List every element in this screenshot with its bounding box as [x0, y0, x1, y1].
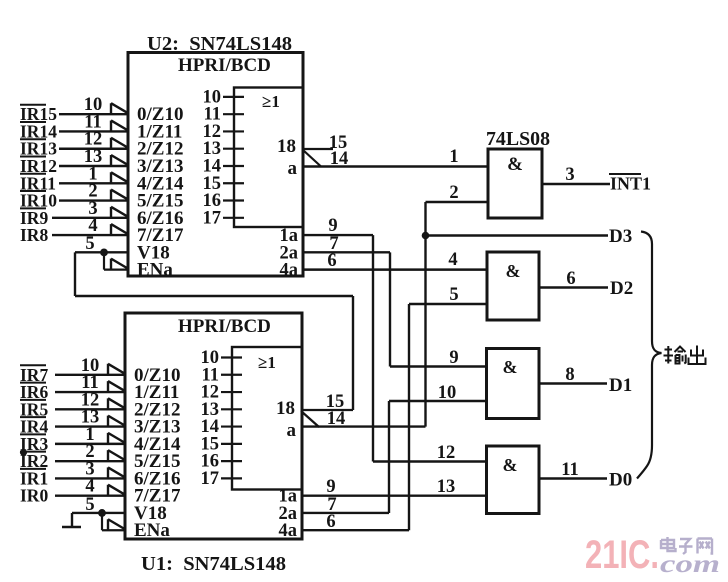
U1 output wedge a	[301, 411, 319, 427]
U2 inner pin 10	[223, 96, 244, 98]
svg-text:≥1: ≥1	[262, 92, 280, 111]
wire gate3 out	[539, 382, 607, 384]
wire gate1 out	[542, 183, 610, 185]
wire U1 V18	[72, 512, 125, 514]
stray ink mark near IR2	[20, 449, 27, 455]
U1 inner OR block	[232, 347, 302, 490]
svg-text:IR8: IR8	[20, 225, 48, 245]
label 输出 (output)	[664, 346, 706, 365]
svg-text:1: 1	[449, 147, 458, 167]
U2 inner pin 12	[223, 130, 244, 132]
U2 inner pin 11	[223, 113, 244, 115]
svg-text:&: &	[507, 154, 523, 175]
U1 inner pin 15	[221, 443, 242, 445]
U1 inner pin 10	[221, 356, 242, 358]
svg-text:4a: 4a	[280, 261, 299, 281]
svg-text:8: 8	[565, 365, 574, 385]
svg-text:9: 9	[326, 477, 335, 497]
IR6 overline	[20, 382, 46, 384]
U2 input wedge IR10	[111, 190, 128, 201]
AND gate U3A	[488, 149, 542, 218]
U1 inner pin 11	[221, 374, 242, 376]
svg-text:4: 4	[85, 477, 94, 497]
AND gate U3B	[487, 252, 539, 320]
U2 input wedge IR8	[111, 224, 128, 235]
wire IR5 to U1	[55, 408, 125, 410]
wire IR15 to U2	[59, 113, 128, 115]
IR15 overline	[20, 104, 46, 106]
svg-text:17: 17	[201, 469, 220, 489]
wire U2 V18	[75, 251, 128, 253]
svg-text:IR0: IR0	[20, 486, 48, 506]
wire junction to U1 ENa	[101, 513, 103, 530]
U1 input wedge IR3	[108, 433, 125, 444]
wire U2 1a to gate4 in12	[303, 234, 373, 236]
svg-text:&: &	[503, 455, 518, 475]
IR14 overline	[20, 121, 46, 123]
U2 output wedge a	[303, 150, 321, 167]
U1 ENa wedge	[108, 519, 125, 530]
IR12 overline	[20, 156, 46, 158]
svg-text:≥1: ≥1	[258, 353, 276, 372]
svg-text:74LS08: 74LS08	[486, 128, 550, 150]
wire U1 2a to gate3 in10	[301, 512, 389, 514]
svg-text:18: 18	[276, 398, 295, 419]
IR9 overline	[20, 207, 46, 209]
svg-text:5: 5	[85, 234, 94, 254]
AND gate U3D	[487, 446, 540, 514]
U1 inner pin 12	[221, 391, 242, 393]
svg-text:a: a	[288, 158, 298, 179]
svg-text:U1: SN74LS148: U1: SN74LS148	[141, 553, 286, 575]
wire IR3 to U1	[55, 443, 125, 445]
svg-text:9: 9	[449, 348, 458, 368]
svg-text:&: &	[503, 357, 518, 377]
U1 inner pin 13	[221, 408, 242, 410]
U2 inner pin 15	[223, 182, 244, 184]
wire U2 EI loop: down, across, to U1 EO	[74, 252, 76, 296]
IR3 overline	[20, 433, 46, 435]
U1 input wedge IR6	[108, 381, 125, 392]
svg-text:D1: D1	[609, 375, 632, 396]
svg-text:6: 6	[566, 269, 575, 289]
wire IR7 to U1	[55, 374, 125, 376]
U2 inner OR block	[234, 88, 303, 228]
svg-text:a: a	[287, 420, 297, 441]
IR7 overline	[20, 364, 46, 366]
svg-text:D2: D2	[610, 278, 633, 299]
wire IR8 to U2	[52, 234, 128, 236]
wire junction to ENa	[103, 252, 105, 269]
U1 input wedge IR1	[108, 467, 125, 478]
wire gate2 out	[539, 286, 608, 288]
U2 input wedge IR9	[111, 207, 128, 218]
svg-text:HPRI/BCD: HPRI/BCD	[178, 55, 271, 76]
svg-text:9: 9	[328, 216, 337, 236]
wire U1 a (14) up to gate1 in2 / D3	[301, 425, 426, 427]
svg-text:com: com	[660, 551, 720, 578]
IR11 overline	[20, 173, 46, 175]
U2 output stub pin 15	[303, 148, 333, 150]
wire IR10 to U2	[59, 199, 128, 201]
output brace	[637, 232, 662, 479]
U1 output stub pin 15 (EO to U2 EI)	[301, 409, 353, 411]
IR2 overline	[20, 451, 46, 453]
wire IR1 to U1	[55, 477, 125, 479]
U2 inner pin 14	[223, 165, 244, 167]
U1 input wedge IR5	[108, 398, 125, 409]
U2 ENa wedge	[111, 259, 128, 270]
svg-text:&: &	[506, 261, 521, 281]
svg-text:HPRI/BCD: HPRI/BCD	[178, 316, 271, 337]
wire D3	[426, 234, 609, 236]
encoder U2 body	[128, 53, 303, 277]
U2 inner pin 16	[223, 199, 244, 201]
svg-text:4a: 4a	[279, 521, 298, 541]
svg-text:6: 6	[327, 251, 336, 271]
svg-text:18: 18	[277, 136, 296, 157]
svg-text:6: 6	[326, 512, 335, 532]
svg-text:11: 11	[561, 460, 578, 480]
wire U2 a (14) to gate1 in1	[303, 165, 488, 167]
wire IR14 to U2	[59, 130, 128, 132]
node U2 V18/ENa junction	[100, 248, 108, 256]
U1 input wedge IR4	[108, 416, 125, 427]
svg-text:D3: D3	[609, 226, 632, 247]
wire gate4 out	[539, 477, 607, 479]
node D3 junction	[422, 232, 430, 240]
svg-text:10: 10	[438, 383, 457, 403]
U1 inner pin 16	[221, 460, 242, 462]
wire IR4 to U1	[55, 425, 125, 427]
watermark 电子网 (drawn)	[661, 537, 712, 554]
wire U2 4a to gate2 in4	[303, 268, 487, 270]
U1 input wedge IR7	[108, 364, 125, 375]
wire IR13 to U2	[59, 148, 128, 150]
svg-text:17: 17	[203, 208, 222, 228]
svg-text:12: 12	[437, 443, 456, 463]
encoder U1 body	[125, 313, 302, 539]
wire U1 4a to gate2 in5	[301, 529, 409, 531]
svg-text:21IC.: 21IC.	[585, 533, 659, 577]
wire IR2 to U1	[55, 460, 125, 462]
wire U1 1a to gate4 in13	[301, 494, 487, 496]
svg-text:13: 13	[437, 477, 456, 497]
svg-text:2: 2	[449, 183, 458, 203]
U2 inner pin 13	[223, 148, 244, 150]
U2 input wedge IR14	[111, 120, 128, 131]
wire IR6 to U1	[55, 391, 125, 393]
ground symbol	[71, 513, 73, 527]
IR5 overline	[20, 399, 46, 401]
svg-text:4: 4	[448, 250, 457, 270]
svg-text:5: 5	[449, 285, 458, 305]
wire IR11 to U2	[59, 182, 128, 184]
AND gate U3C	[487, 349, 540, 419]
svg-text:ENa: ENa	[137, 260, 173, 281]
IR4 overline	[20, 416, 46, 418]
wire IR0 to U1	[55, 494, 125, 496]
svg-text:ENa: ENa	[134, 520, 170, 541]
svg-text:D0: D0	[609, 470, 632, 491]
INT overline	[609, 173, 641, 175]
wire U2 2a to gate3 in9	[303, 251, 390, 253]
U1 inner pin 14	[221, 425, 242, 427]
U1 input wedge IR2	[108, 450, 125, 461]
IR1 overline	[20, 468, 46, 470]
U2 input wedge IR13	[111, 138, 128, 149]
U1 input wedge IR0	[108, 485, 125, 496]
svg-text:INT1: INT1	[610, 174, 651, 194]
U2 input wedge IR15	[111, 103, 128, 114]
wire IR9 to U2	[52, 217, 128, 219]
U2 input wedge IR12	[111, 155, 128, 166]
IR13 overline	[20, 138, 46, 140]
U1 inner pin 17	[221, 477, 242, 479]
node U1 V18/ENa junction	[98, 509, 106, 517]
wire IR12 to U2	[59, 165, 128, 167]
svg-text:3: 3	[565, 165, 574, 185]
U2 input wedge IR11	[111, 172, 128, 183]
U2 inner pin 17	[223, 217, 244, 219]
IR10 overline	[20, 190, 46, 192]
